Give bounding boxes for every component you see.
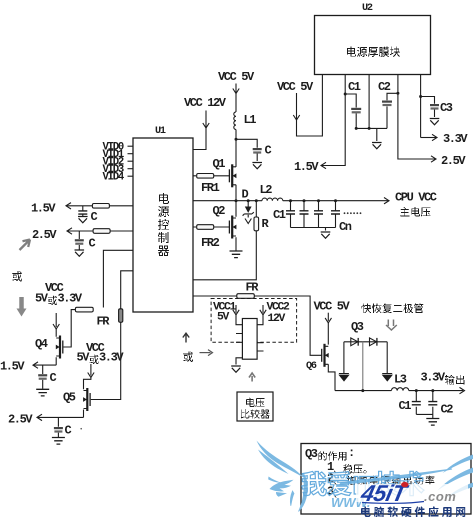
diode mid tap wire	[362, 342, 364, 391]
inductor L2	[262, 198, 283, 201]
svg-text:L2: L2	[260, 183, 273, 197]
3.3V output arrow	[409, 390, 463, 392]
svg-text:3.3V: 3.3V	[99, 351, 124, 365]
capacitor C (2.5V sense)	[78, 231, 80, 250]
svg-text:U1: U1	[155, 126, 166, 137]
svg-text:VCC2: VCC2	[267, 302, 291, 314]
capacitor C (5V filter)	[236, 139, 257, 161]
diode right ground	[386, 342, 388, 373]
watermark left wing main feather	[257, 441, 304, 478]
comparator right pins	[257, 343, 263, 351]
text OR (huo) left	[12, 271, 22, 282]
3.3V output arrow (U2)	[421, 137, 436, 139]
watermark right wing	[443, 455, 473, 474]
down arrow into Q5 drain	[90, 364, 92, 376]
capacitor C2 (3.3V)	[431, 389, 434, 392]
svg-text:Q2: Q2	[213, 204, 226, 218]
voltage comparator label box	[237, 392, 273, 421]
svg-text:C1: C1	[399, 399, 412, 413]
svg-text:Cn: Cn	[339, 220, 352, 234]
3.3V output line	[335, 390, 391, 392]
svg-text:U2: U2	[362, 3, 373, 14]
U2 pin2 wire to 1.5V	[321, 74, 345, 165]
resistor FR1 + Q1 gate wire	[193, 175, 229, 177]
VCC 5V arrow wire	[235, 84, 237, 112]
watermark 45iT logo backing	[356, 484, 468, 502]
resistor FR vertical (Q5 gate)	[119, 309, 123, 323]
svg-text:VCC 5V: VCC 5V	[218, 70, 255, 84]
watermark left wing curl	[290, 491, 294, 506]
wire U1 to vertical FR (Q5 gate)	[91, 271, 133, 400]
watermark diannao text	[361, 507, 371, 518]
text OR (huo) comparator	[183, 352, 193, 363]
svg-text:.com: .com	[424, 489, 456, 504]
U2 pin3 wire	[368, 74, 370, 128]
diode D1 (Q3)	[351, 338, 358, 346]
diode left ground	[343, 342, 345, 373]
1.5V sense line + resistor	[66, 205, 133, 207]
capacitor C3	[419, 95, 422, 98]
transistor Q1	[231, 164, 233, 187]
watermark left wing feather2	[258, 450, 289, 475]
svg-text:L3: L3	[394, 373, 407, 387]
svg-text:Q3: Q3	[305, 447, 318, 461]
3.3V caps bus + ground	[416, 414, 433, 418]
svg-text:VID4: VID4	[103, 171, 125, 183]
VCC1 arrow into comparator	[235, 305, 237, 313]
svg-text:FR1: FR1	[201, 181, 220, 195]
comparator IC box	[242, 319, 257, 360]
svg-text:C1: C1	[273, 208, 286, 222]
svg-text:Q1: Q1	[213, 157, 226, 171]
transistor Q2	[235, 201, 237, 248]
watermark left wing lower feather	[276, 492, 287, 497]
capacitor bank cap 2	[303, 199, 306, 202]
VCC 5V arrow into Q6 drain	[327, 313, 329, 321]
transistor Q4	[55, 329, 57, 365]
svg-text:1.5V: 1.5V	[294, 160, 319, 174]
main output line to CPU VCC	[283, 200, 388, 202]
svg-text:C2: C2	[441, 403, 454, 417]
cap bank bottom bus + ground	[291, 228, 336, 231]
label fast recovery diode	[362, 304, 372, 314]
wire U1 to FR (Q4 gate)	[103, 250, 133, 307]
zener diode at node D	[247, 199, 250, 202]
svg-text:2.5V: 2.5V	[8, 413, 33, 427]
wire Q1 source to node D	[235, 185, 237, 201]
svg-text::: :	[348, 446, 354, 460]
inductor L1	[234, 112, 236, 130]
node D main line	[193, 200, 262, 202]
svg-text:Q5: Q5	[63, 391, 76, 405]
gray down arrow (Q4 supply)	[19, 297, 24, 309]
watermark outline text wo ai IT jishu	[302, 471, 327, 495]
hollow up arrow (comparator)	[249, 373, 255, 382]
resistor FR (Q4 gate)	[75, 307, 93, 312]
diode pair top wire	[344, 341, 387, 343]
svg-text:12V: 12V	[268, 313, 286, 325]
svg-text:VCC 12V: VCC 12V	[184, 96, 227, 110]
svg-text:3.3V: 3.3V	[58, 292, 83, 306]
speck	[80, 428, 82, 430]
resistor R	[255, 199, 258, 202]
northeast arrow (or)	[20, 240, 31, 251]
svg-text:CPU VCC: CPU VCC	[395, 191, 437, 205]
svg-text:1.5V: 1.5V	[0, 360, 25, 374]
watermark bracket swoosh by box border	[299, 474, 308, 512]
resistor FR2 + Q2 gate wire	[193, 226, 229, 228]
up arrow above OR (comparator)	[183, 333, 189, 342]
capacitor C1 (U2)	[344, 93, 347, 96]
capacitor bank cap 1	[289, 199, 292, 202]
U2 pin4 wire to 2.5V	[398, 74, 435, 159]
U2 ground bus + ground	[356, 128, 387, 141]
right arrow (comparator)	[200, 352, 211, 354]
2.5V sense line + resistor	[67, 230, 133, 232]
resistor FR (Q6 gate) + wire	[193, 296, 322, 355]
IC U2 power thick-film module box	[315, 16, 431, 75]
svg-text:VCC 5V: VCC 5V	[314, 300, 351, 314]
svg-text:3.3V: 3.3V	[421, 371, 446, 385]
svg-text:C1: C1	[348, 80, 361, 94]
watermark left wing fan	[270, 480, 294, 492]
label main voltage	[400, 207, 410, 217]
svg-text:Q3: Q3	[351, 320, 364, 334]
svg-text:1.5V: 1.5V	[31, 202, 56, 216]
svg-text:VCC 5V: VCC 5V	[277, 80, 314, 94]
comparator ground	[236, 358, 242, 365]
hollow double down arrow	[386, 320, 397, 331]
U2 pin5 wire	[420, 74, 422, 137]
capacitor bank cap 4	[334, 199, 337, 202]
2.5V output line (Q5)	[37, 416, 84, 418]
svg-text:Q4: Q4	[35, 337, 48, 351]
svg-text:3.3V: 3.3V	[443, 132, 468, 146]
transistor Q5	[83, 386, 85, 417]
svg-text:2.5V: 2.5V	[32, 228, 57, 242]
capacitor C (2.5V out)	[57, 417, 59, 437]
down arrow into Q4 drain	[55, 313, 57, 327]
svg-text:Q6: Q6	[306, 361, 317, 372]
svg-text:L1: L1	[244, 113, 257, 127]
svg-text:2.5V: 2.5V	[441, 154, 466, 168]
comparator left pins	[236, 334, 242, 343]
svg-text:FR2: FR2	[201, 236, 220, 250]
capacitor bank cap 3	[317, 199, 320, 202]
IC U1 power controller box	[133, 138, 193, 312]
1.5V output line (Q4)	[33, 364, 56, 366]
watermark swoosh line across text	[340, 469, 452, 484]
annotation box Q3 function	[301, 444, 471, 515]
capacitor C1 (3.3V)	[415, 389, 418, 392]
capacitor C2 (U2)	[396, 92, 399, 95]
VCC2 arrow into comparator	[262, 305, 264, 313]
svg-text:5V: 5V	[217, 312, 230, 324]
diode D2 (Q3)	[370, 338, 377, 346]
watermark left wing feather3	[268, 477, 281, 483]
VCC 12V arrow wire to U1	[193, 111, 206, 150]
node junction L1/C	[235, 138, 238, 141]
svg-text:C2: C2	[378, 80, 391, 94]
ground Q2 source	[235, 248, 237, 251]
transistor Q6	[323, 344, 325, 367]
capacitor C (1.5V sense)	[82, 206, 84, 216]
svg-text:C3: C3	[440, 101, 453, 115]
wire L1 to Q1 drain	[235, 130, 237, 167]
inductor L3	[391, 388, 408, 391]
capacitor C (1.5V out)	[42, 365, 44, 389]
dashed box (comparator supplies)	[211, 299, 297, 343]
